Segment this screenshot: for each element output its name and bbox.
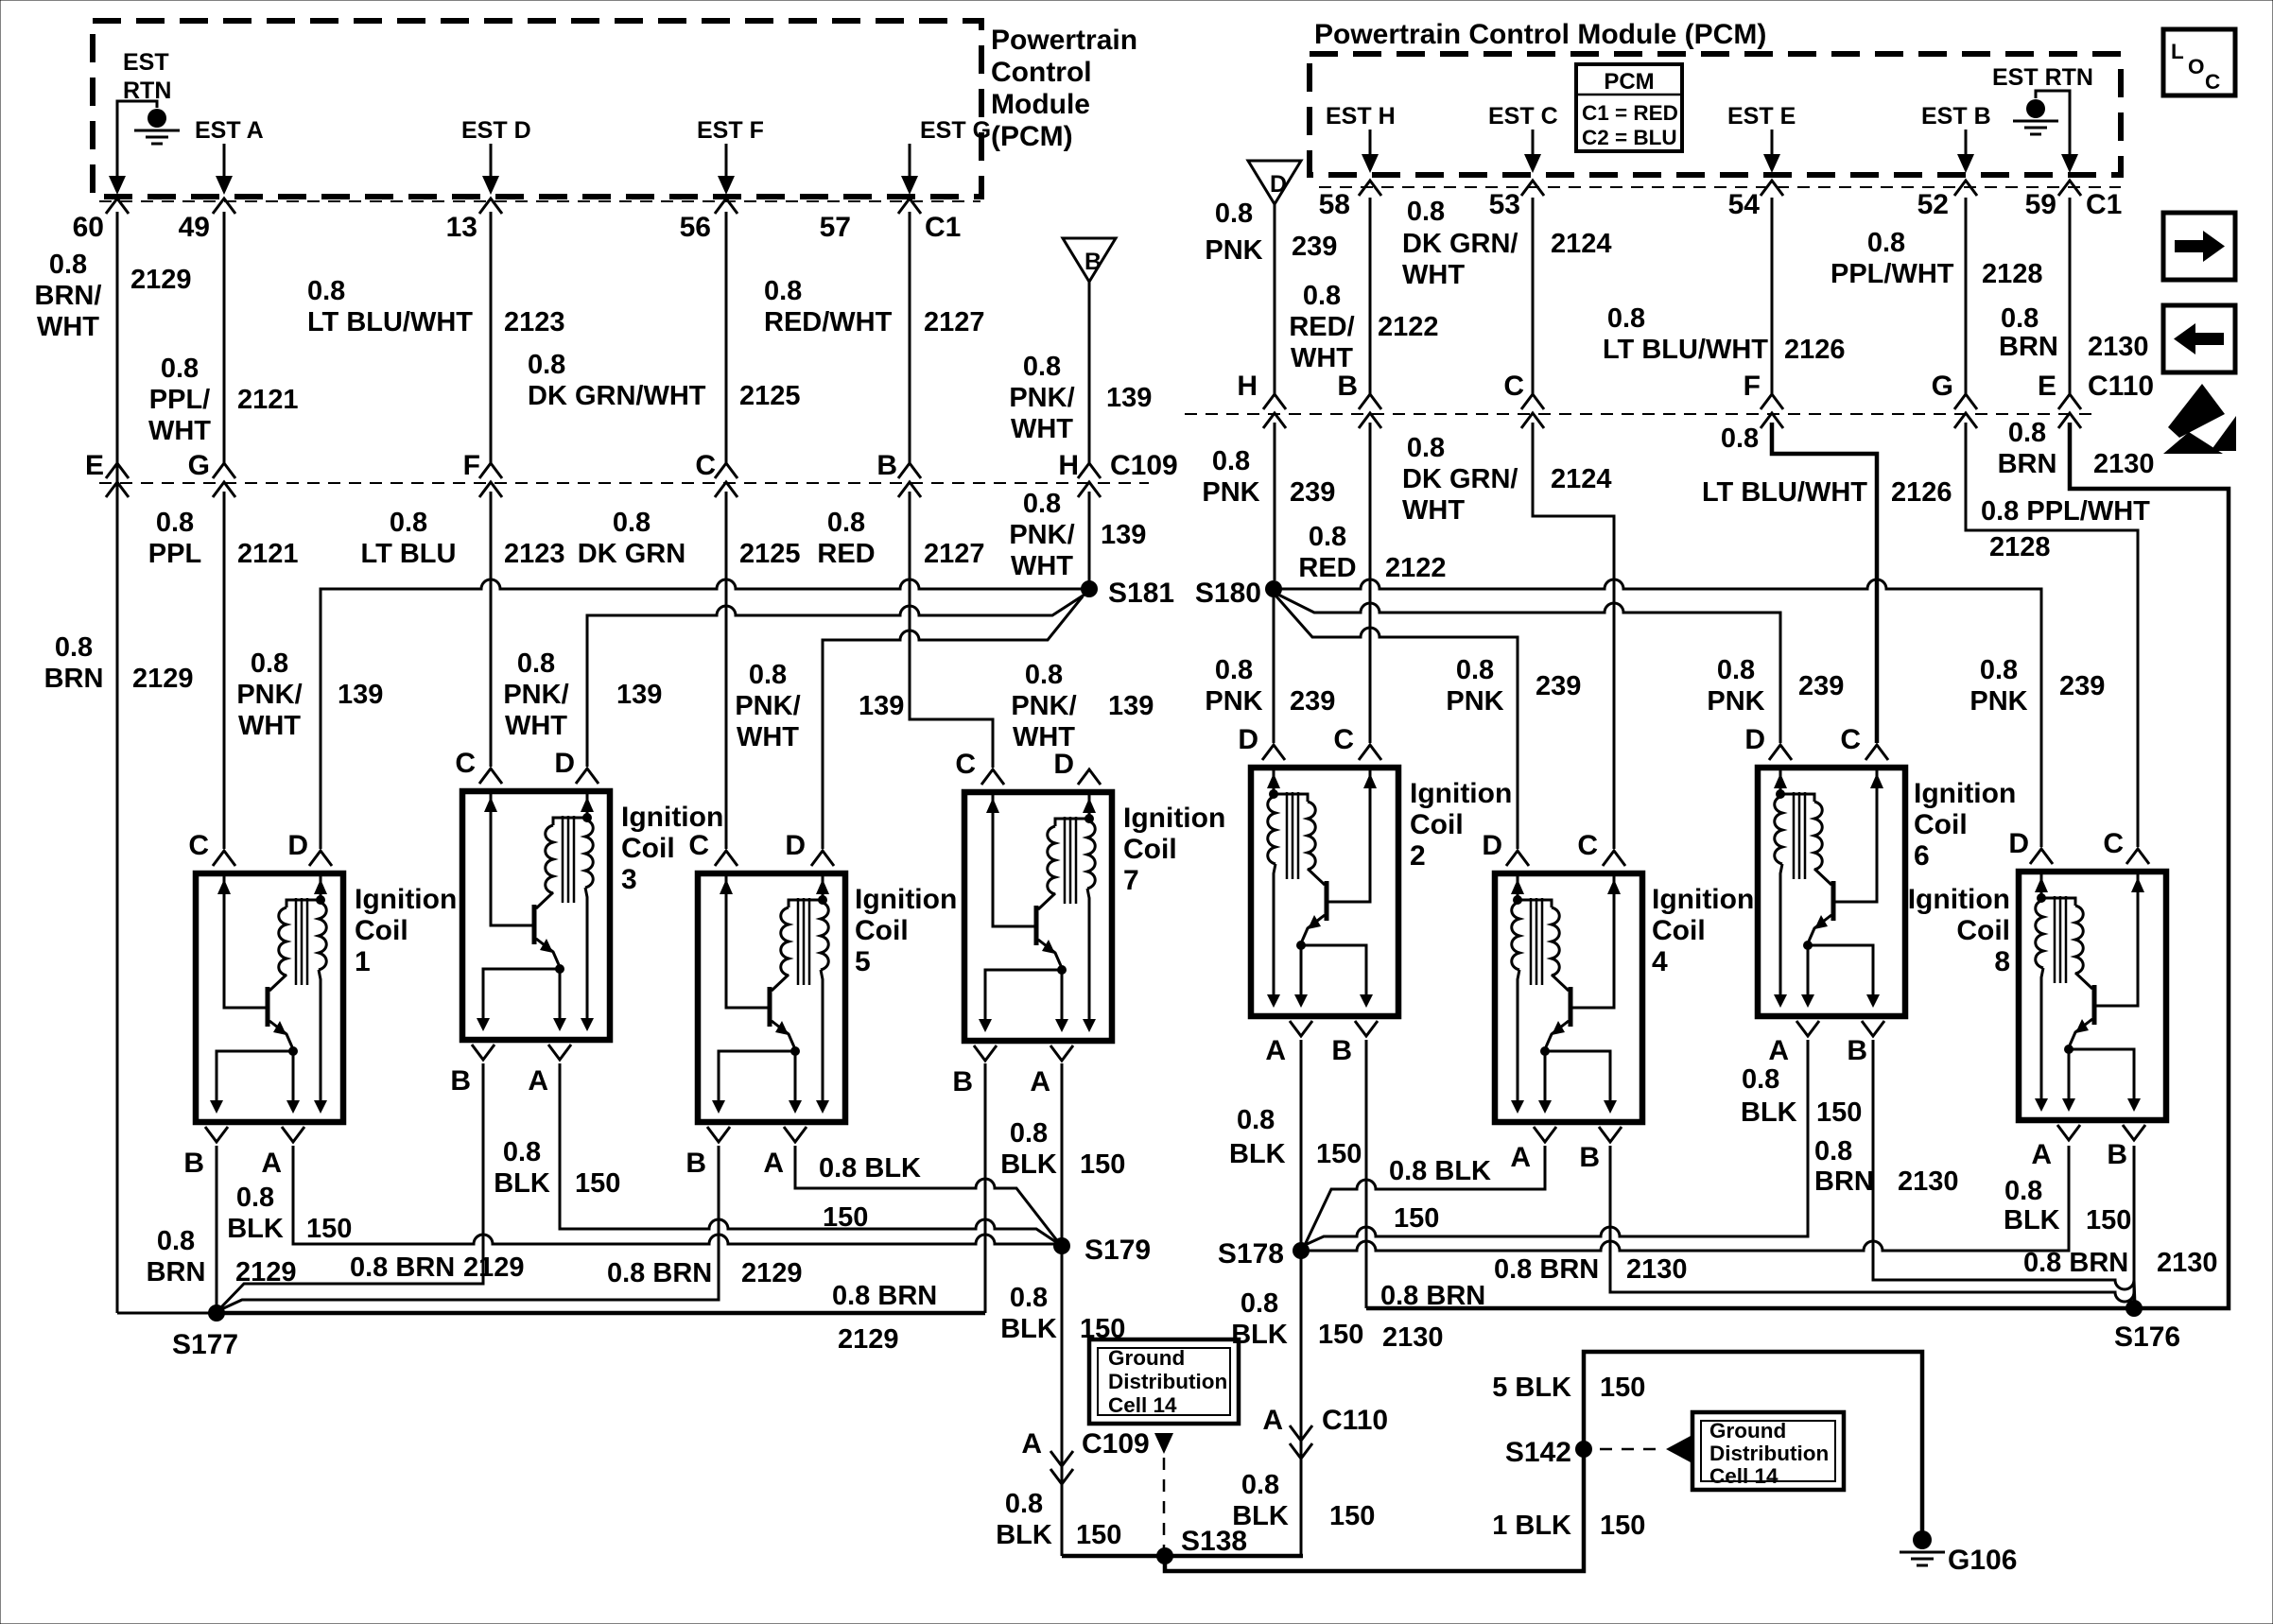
svg-text:C110: C110 (1322, 1405, 1388, 1436)
connector C1 line (right PCM bottom) (1319, 186, 2121, 188)
svg-text:Ignition: Ignition (1914, 778, 2016, 809)
svg-text:139: 139 (616, 680, 662, 710)
wire coil1 A BLK 150 bus to S179 (hops coil3B, coil5B, coil7B) (293, 1146, 1062, 1244)
svg-text:A: A (1768, 1035, 1789, 1066)
svg-text:PNK: PNK (1707, 686, 1764, 717)
reference triangle D (1248, 161, 1301, 204)
EST E pin label (1727, 103, 1796, 130)
wire coil8 A BLK bus to S178 (1301, 1146, 2069, 1251)
svg-text:0.8 PPL/WHT: 0.8 PPL/WHT (1981, 496, 2150, 527)
wire coil3 B BRN to S177 bus (218, 1063, 483, 1310)
svg-text:150: 150 (1318, 1320, 1363, 1350)
wire EST RTN to pin 60 (117, 101, 157, 185)
splice S177 (172, 1304, 238, 1360)
coil7 pin letters C D (955, 749, 1074, 780)
svg-text:2128: 2128 (1982, 259, 2043, 289)
svg-text:DK GRN/: DK GRN/ (1402, 464, 1518, 494)
connector C109 pin A (1021, 1428, 1149, 1460)
svg-text:0.8: 0.8 (2008, 418, 2046, 448)
EST F pin label (697, 117, 764, 144)
svg-text:2130: 2130 (2093, 449, 2155, 479)
label coil6 A 0.8 BLK 150 (1741, 1064, 1862, 1128)
label coil4 A bus 0.8 BLK 150 (1389, 1156, 1491, 1234)
svg-text:2130: 2130 (1382, 1322, 1444, 1353)
svg-text:PCM: PCM (1604, 69, 1654, 95)
EST A pin label (195, 117, 264, 144)
EST G pin label (920, 117, 991, 144)
ground symbol inside left PCM (134, 109, 180, 144)
svg-text:2130: 2130 (2157, 1248, 2218, 1278)
svg-text:0.8: 0.8 (2004, 1176, 2042, 1206)
label circuit 2125 (739, 381, 801, 411)
Ground Distribution Cell 14 box (upper) (1089, 1339, 1239, 1424)
svg-text:6: 6 (1914, 840, 1930, 872)
ignition coil 1 (196, 873, 343, 1122)
svg-text:150: 150 (1600, 1373, 1645, 1403)
svg-text:150: 150 (306, 1214, 352, 1244)
reference arrow triangle (S142) (1666, 1436, 1691, 1462)
svg-text:0.8: 0.8 (1023, 489, 1061, 519)
wire BRN 2130 below C110 jog to right edge down to S176 (2070, 423, 2229, 1308)
svg-text:2121: 2121 (237, 385, 299, 415)
svg-text:PNK/: PNK/ (503, 680, 568, 710)
svg-text:0.8: 0.8 (1241, 1470, 1279, 1500)
svg-text:WHT: WHT (1291, 343, 1353, 373)
svg-text:O: O (2188, 55, 2205, 78)
svg-text:PNK/: PNK/ (1011, 691, 1076, 721)
svg-text:BRN: BRN (147, 1257, 206, 1287)
svg-text:L: L (2171, 40, 2184, 63)
svg-text:Module: Module (991, 89, 1090, 120)
svg-text:WHT: WHT (1011, 551, 1073, 581)
svg-text:Coil: Coil (1914, 809, 1968, 840)
svg-text:BLK: BLK (1229, 1139, 1286, 1169)
wire EST D (490, 144, 493, 186)
svg-text:0.8: 0.8 (503, 1137, 541, 1167)
label 1 BLK 150 (1492, 1511, 1645, 1541)
ignition coil 6 (1758, 768, 1905, 1016)
svg-text:Coil: Coil (355, 915, 408, 946)
wire coil4 B BRN bus to S176 (1610, 1146, 2134, 1304)
svg-text:2: 2 (1410, 840, 1426, 872)
svg-text:E: E (2038, 371, 2056, 402)
dashed reference line to S138 (1163, 1458, 1166, 1548)
svg-text:Ignition: Ignition (355, 884, 457, 915)
svg-text:3: 3 (621, 864, 637, 895)
svg-text:C110: C110 (2088, 371, 2154, 402)
label 0.8 PNK + 239 (row1) (1205, 199, 1337, 266)
wire PNK/WHT bus to coil1 D (hops F,C,B wires) (321, 579, 1089, 849)
svg-text:2126: 2126 (1784, 335, 1846, 365)
EST RTN label (left PCM) (123, 49, 171, 104)
svg-text:0.8: 0.8 (749, 660, 787, 690)
svg-text:C: C (2103, 828, 2124, 859)
svg-text:0.8: 0.8 (528, 350, 565, 380)
right arrow icon box (2163, 213, 2235, 280)
svg-text:G: G (1932, 371, 1953, 402)
label 0.8 BRN + 2130 (row1) (1999, 303, 2149, 362)
svg-text:239: 239 (1536, 671, 1581, 701)
svg-text:150: 150 (1080, 1149, 1125, 1180)
svg-text:EST A: EST A (195, 117, 264, 144)
svg-text:DK GRN/: DK GRN/ (1402, 229, 1518, 259)
label coil2 A 0.8 BLK 150 (1229, 1105, 1362, 1169)
svg-text:PNK/: PNK/ (1009, 520, 1074, 550)
label 5 BLK 150 (1492, 1373, 1645, 1403)
label 0.8 LT BLU/WHT + 2126 (row1) (1603, 303, 1846, 365)
coil4 pin carets (1506, 851, 1625, 866)
svg-text:2128: 2128 (1989, 532, 2051, 562)
svg-text:7: 7 (1123, 865, 1139, 896)
svg-text:239: 239 (1292, 232, 1337, 262)
wire PNK bus S180 to coil8 D (hops coil2C, coil4C, coil6C) (1274, 579, 2041, 847)
wire PPL/WHT 2128 (pin52-G) (1965, 198, 1968, 394)
svg-text:C: C (1840, 724, 1861, 755)
svg-text:Distribution: Distribution (1108, 1370, 1227, 1393)
svg-text:0.8 BLK: 0.8 BLK (1389, 1156, 1491, 1186)
wire coil7 B BRN to S177 main bus (217, 1063, 985, 1313)
svg-text:0.8 BRN: 0.8 BRN (2023, 1248, 2128, 1278)
svg-text:A: A (1030, 1066, 1050, 1097)
svg-text:BLK: BLK (1232, 1501, 1289, 1531)
svg-text:DK GRN/WHT: DK GRN/WHT (528, 381, 706, 411)
svg-text:239: 239 (1290, 477, 1335, 508)
reference triangle B (1063, 238, 1116, 282)
wire PPL 2121 below C109 (223, 492, 226, 849)
label coil6 B 0.8 BRN 2130 (1814, 1136, 1959, 1197)
wire PNK/WHT 139 from triangle B (1088, 282, 1091, 463)
label 0.8 PNK/WHT + 139 (coil3 D) (503, 648, 662, 741)
splice S178 (1218, 1238, 1310, 1270)
svg-text:2122: 2122 (1385, 553, 1447, 583)
splice S179 (1053, 1235, 1151, 1266)
coil3 pin carets (479, 769, 599, 784)
svg-text:BLK: BLK (996, 1520, 1052, 1550)
svg-text:D: D (1482, 830, 1502, 861)
wire DK GRN 2125 below C109 (725, 492, 728, 849)
svg-text:C: C (1503, 371, 1524, 402)
wire coil2 B BRN bus to S176 (1366, 1040, 2134, 1308)
wire EST RTN to pin 59 (2036, 91, 2070, 164)
svg-text:C: C (188, 830, 209, 861)
svg-text:B: B (1579, 1142, 1600, 1173)
wire coil6 B BRN bus to S176 (1873, 1040, 2135, 1304)
label 0.8 DK GRN/WHT + 2124 (row1) (1402, 197, 1612, 290)
svg-text:C: C (688, 830, 709, 861)
EST RTN label (right PCM) (1992, 64, 2093, 91)
svg-text:0.8 BRN: 0.8 BRN (1494, 1254, 1599, 1285)
svg-text:PNK/: PNK/ (1009, 383, 1074, 413)
svg-text:A: A (1265, 1035, 1286, 1066)
wire LT BLU/WHT 2123 (pin13-F) (490, 212, 493, 463)
svg-text:2129: 2129 (130, 265, 192, 295)
svg-text:0.8: 0.8 (1241, 1288, 1278, 1319)
svg-text:57: 57 (820, 212, 851, 243)
ignition coil 5 label (855, 884, 957, 977)
svg-text:C1: C1 (2086, 189, 2122, 220)
svg-text:150: 150 (1600, 1511, 1645, 1541)
coil7 pin carets (981, 769, 1101, 785)
svg-text:0.8: 0.8 (517, 648, 555, 679)
coil5 pin carets (715, 851, 834, 866)
svg-text:Coil: Coil (621, 833, 675, 864)
svg-text:2129: 2129 (741, 1258, 803, 1288)
connector C110 letters row (1237, 371, 2154, 402)
svg-text:BRN: BRN (1998, 449, 2057, 479)
svg-text:WHT: WHT (1402, 260, 1465, 290)
svg-text:0.8: 0.8 (157, 1226, 195, 1256)
svg-text:Ground: Ground (1108, 1346, 1185, 1370)
svg-text:Ignition: Ignition (1410, 778, 1512, 809)
coil1 pin carets (213, 851, 332, 866)
PCM connector color key box (1576, 64, 1682, 151)
label 0.8 LT BLU + 2123 (361, 508, 565, 569)
coil2 bottom pin letters A B (1265, 1035, 1352, 1066)
svg-text:0.8: 0.8 (1023, 352, 1061, 382)
svg-text:0.8: 0.8 (1212, 446, 1250, 476)
coil6 bottom pin carets (1796, 1021, 1884, 1036)
splice S142 (1505, 1437, 1592, 1468)
ignition coil 3 label (621, 802, 723, 895)
coil3 bottom pin letters B A (450, 1065, 548, 1097)
svg-text:0.8: 0.8 (1010, 1283, 1048, 1313)
svg-text:0.8: 0.8 (2001, 303, 2039, 334)
ignition coil 6 label (1914, 778, 2016, 872)
wire BRN 2130 (pin59-E) (2069, 198, 2072, 394)
svg-text:B: B (1847, 1035, 1867, 1066)
svg-text:B: B (183, 1148, 204, 1179)
svg-text:C1: C1 (925, 212, 961, 243)
label coil6 B bus near S176 0.8 BRN 2130 (2023, 1248, 2218, 1278)
label circuit 2127 (924, 307, 985, 337)
svg-text:13: 13 (446, 212, 477, 243)
svg-text:LT BLU/WHT: LT BLU/WHT (1702, 477, 1867, 508)
svg-text:Cell 14: Cell 14 (1108, 1393, 1177, 1417)
svg-text:0.8 BRN: 0.8 BRN (607, 1258, 712, 1288)
svg-text:BLK: BLK (1741, 1097, 1797, 1128)
svg-text:A: A (1021, 1428, 1042, 1460)
svg-text:139: 139 (859, 691, 904, 721)
label 0.8 DK GRN/WHT + 2124 (row2) (1402, 433, 1612, 526)
svg-text:Coil: Coil (1956, 915, 2010, 946)
svg-text:LT BLU/WHT: LT BLU/WHT (1603, 335, 1768, 365)
wire DK GRN/WHT 2125 (pin56-C) (725, 212, 728, 463)
svg-text:Ignition: Ignition (1908, 884, 2010, 915)
connector C110 dashed line (1185, 413, 2091, 415)
label 0.8 PNK/WHT + 139 (coil1 D) (236, 648, 383, 741)
svg-text:0.8: 0.8 (251, 648, 288, 679)
wire PNK/WHT bus to coil5 D (823, 596, 1083, 849)
svg-text:2129: 2129 (235, 1257, 297, 1287)
label circuit 2123 (504, 307, 565, 337)
svg-text:BRN/: BRN/ (35, 281, 102, 311)
label 0.8 PPL/WHT + 2128 (row2) (1981, 496, 2150, 562)
svg-text:B: B (1084, 249, 1102, 275)
connector C1 line (left PCM bottom) (99, 200, 980, 202)
ignition coil 3 (462, 791, 610, 1040)
svg-text:B: B (685, 1148, 706, 1179)
label 0.8 BLK 150 (below S178) (1231, 1288, 1363, 1350)
wire DK GRN/WHT below C110 with jog to coil4 C (1533, 423, 1614, 849)
label 0.8 RED/WHT + 2122 (row1) (1289, 281, 1438, 373)
svg-text:PPL/WHT: PPL/WHT (1831, 259, 1954, 289)
label circuit 2121 (237, 385, 299, 415)
label 0.8 BLK 150 (below S179) (1000, 1283, 1125, 1344)
svg-text:Ignition: Ignition (1123, 803, 1225, 834)
ignition coil 7 (964, 792, 1112, 1041)
svg-text:BRN: BRN (44, 664, 104, 694)
svg-text:PNK: PNK (1202, 477, 1259, 508)
svg-text:0.8: 0.8 (1309, 522, 1346, 552)
svg-text:Ground: Ground (1709, 1419, 1786, 1443)
ignition coil 7 label (1123, 803, 1225, 896)
svg-text:B: B (1331, 1035, 1352, 1066)
svg-text:G106: G106 (1948, 1545, 2017, 1576)
coil7 bottom pin letters B A (952, 1066, 1050, 1097)
svg-text:52: 52 (1917, 189, 1949, 220)
svg-text:S142: S142 (1505, 1437, 1571, 1468)
coil6 bottom pin letters A B (1768, 1035, 1867, 1066)
svg-text:59: 59 (2025, 189, 2056, 220)
label coil3 A 0.8 BLK 150 (494, 1137, 620, 1199)
ignition coil 2 (1251, 768, 1398, 1016)
label 0.8 PNK + 239 (coil2 D) (1205, 655, 1335, 717)
svg-text:2125: 2125 (739, 539, 801, 569)
ignition coil 4 label (1652, 884, 1754, 977)
svg-text:4: 4 (1652, 946, 1668, 977)
connector C109 letters row (85, 450, 1178, 481)
coil8 bottom pin carets (2057, 1125, 2145, 1140)
svg-text:150: 150 (575, 1168, 620, 1199)
svg-text:S180: S180 (1195, 578, 1261, 609)
svg-text:A: A (1510, 1142, 1531, 1173)
svg-text:0.8: 0.8 (764, 276, 802, 306)
svg-text:0.8: 0.8 (55, 632, 93, 663)
wire PNK bus S180 to coil6 D (1278, 595, 1780, 743)
svg-text:B: B (1337, 371, 1358, 402)
svg-text:2123: 2123 (504, 307, 565, 337)
svg-text:S179: S179 (1084, 1235, 1151, 1266)
label 0.8 PNK/WHT + 139 (coil7 D) (1011, 660, 1154, 752)
svg-text:0.8: 0.8 (1010, 1118, 1048, 1149)
wire LT BLU/WHT 2126 (pin54-F) (1771, 198, 1774, 394)
label coil7 A 0.8 BLK 150 (above S179) (1000, 1118, 1125, 1180)
coil2 pin carets (1262, 745, 1381, 760)
svg-text:Coil: Coil (855, 915, 909, 946)
wire LT BLU 2123 below C109 (490, 492, 493, 767)
label coil5 B bus 0.8 BRN 2129 (607, 1258, 803, 1288)
svg-text:Coil: Coil (1123, 834, 1177, 865)
svg-text:2123: 2123 (504, 539, 565, 569)
svg-text:2130: 2130 (2088, 332, 2149, 362)
svg-text:139: 139 (1101, 520, 1146, 550)
label coil1 B 0.8 BRN 2129 (147, 1226, 297, 1287)
svg-text:2126: 2126 (1891, 477, 1952, 508)
svg-text:BLK: BLK (2004, 1205, 2060, 1235)
svg-text:LT BLU/WHT: LT BLU/WHT (307, 307, 473, 337)
svg-text:2129: 2129 (838, 1324, 899, 1355)
svg-text:PNK/: PNK/ (236, 680, 302, 710)
svg-text:54: 54 (1728, 189, 1761, 220)
PCM module box (left, dashed) (93, 21, 981, 197)
coil1 bottom pin carets (205, 1127, 304, 1142)
ESD static sensitive symbol (2163, 384, 2236, 454)
wire RED/WHT 2122 (pin58-B) (1369, 198, 1372, 394)
svg-text:PNK: PNK (1205, 235, 1262, 266)
EST C pin label (1488, 103, 1558, 130)
svg-text:C: C (1333, 724, 1354, 755)
label coil8 A 0.8 BLK 150 (2004, 1176, 2131, 1235)
svg-text:PPL/: PPL/ (149, 385, 210, 415)
svg-text:Ignition: Ignition (621, 802, 723, 833)
svg-text:F: F (463, 450, 480, 481)
svg-text:EST G: EST G (920, 117, 991, 144)
wire coil5 A BLK 150 bus to S179 (795, 1146, 1059, 1243)
coil4 bottom pin carets (1534, 1127, 1622, 1142)
svg-text:0.8: 0.8 (49, 250, 87, 280)
connector C110 chevrons (1263, 394, 2081, 428)
label circuit 2129 (130, 265, 192, 295)
svg-text:5 BLK: 5 BLK (1492, 1373, 1571, 1403)
wire EST H (1369, 130, 1372, 164)
svg-text:2124: 2124 (1551, 464, 1612, 494)
wire coil8 B BRN down to S176 (2133, 1146, 2136, 1308)
svg-text:2130: 2130 (1626, 1254, 1688, 1285)
pin 60 arrowhead (109, 176, 126, 195)
svg-text:150: 150 (1394, 1203, 1439, 1234)
PCM title text (left) (991, 25, 1137, 152)
svg-text:A: A (2031, 1139, 2052, 1170)
label 0.8 PNK + 239 (coil4 D) (1446, 655, 1581, 717)
svg-text:Powertrain Control Module (PCM: Powertrain Control Module (PCM) (1314, 19, 1766, 50)
svg-text:D: D (785, 830, 806, 861)
svg-text:D: D (1238, 724, 1258, 755)
wire coil5 B BRN to S177 bus (217, 1146, 719, 1311)
svg-text:BLK: BLK (1000, 1314, 1057, 1344)
svg-text:2127: 2127 (924, 539, 985, 569)
label 0.8 BRN + 2129 (row3, E wire) (44, 632, 194, 694)
svg-text:H: H (1058, 450, 1079, 481)
svg-text:BLK: BLK (494, 1168, 550, 1199)
EST B pin label (1921, 103, 1991, 130)
svg-text:EST RTN: EST RTN (1992, 64, 2093, 91)
svg-text:0.8: 0.8 (1407, 433, 1445, 463)
Ground Distribution Cell 14 box (lower) (1692, 1412, 1844, 1490)
svg-text:BLK: BLK (1000, 1149, 1057, 1180)
coil8 pin letters D C (2008, 828, 2124, 859)
svg-text:H: H (1237, 371, 1258, 402)
svg-text:C: C (695, 450, 716, 481)
svg-text:Ignition: Ignition (855, 884, 957, 915)
PCM title text (right) (1314, 19, 1766, 50)
svg-text:C109: C109 (1082, 1428, 1150, 1460)
wire coil3 A BLK 150 bus to S179 (560, 1063, 1059, 1244)
label 0.8 RED + 2122 (row2) (1298, 522, 1446, 583)
LOC reference box (2163, 29, 2235, 95)
svg-text:WHT: WHT (1011, 414, 1073, 444)
svg-text:D: D (554, 748, 575, 779)
svg-text:D: D (1053, 749, 1074, 780)
wire LT BLU/WHT below C110 with jog to coil6 C (1772, 423, 1877, 743)
label 0.8 PNK + 239 (coil6 D) (1707, 655, 1844, 717)
svg-text:0.8: 0.8 (1303, 281, 1341, 311)
dashed reference from S142 (1600, 1448, 1664, 1451)
wire BRN/WHT 2129 (pin60-E) (116, 212, 119, 1313)
svg-text:2129: 2129 (463, 1253, 525, 1283)
coil4 pin letters D C (1482, 830, 1598, 861)
svg-text:A: A (1262, 1405, 1283, 1436)
label 0.8 LT BLU/WHT + 2126 (row2) (1702, 423, 1952, 508)
